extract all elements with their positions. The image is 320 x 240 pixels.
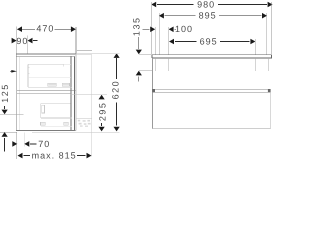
basin front extension line [91,55,93,157]
svg-text:620: 620 [111,80,121,100]
dim 620 line lower segment [116,103,118,126]
dim 620 line upper segment [116,58,118,79]
svg-text:70: 70 [38,139,50,149]
dim 895 extension lines [159,13,267,54]
svg-text:695: 695 [200,36,218,46]
lower drawer internals [41,103,72,118]
svg-text:max. 815: max. 815 [32,151,77,161]
dim 125 up arrow [2,132,8,137]
dim 620 top arrow [114,53,120,58]
dim 295 top extension line [70,94,107,96]
drawer divider lines [17,89,76,91]
dim 695 line [175,41,250,43]
cabinet bottom line [16,129,76,131]
dim 90 right extension line [26,36,28,54]
cabinet left edge [16,54,18,131]
svg-text:135: 135 [132,17,142,37]
dim 295 bottom arrow [99,127,105,132]
upper drawer internals [28,64,72,87]
unit left edge [151,58,153,129]
bracket lines below plate (right) [255,58,268,71]
dim 895 arrows [159,13,164,19]
dim 125 bottom extension line [0,131,16,133]
lower drawer runner box [41,122,69,125]
dim 70 extension lines [16,132,18,159]
dim 70 arrows [12,141,17,147]
svg-text:895: 895 [199,11,217,21]
dim 125 lower tail [4,138,6,152]
cabinet left panel inner line [18,57,20,130]
dim 100/695 extension lines above plate [155,27,255,55]
dim 125 line upper tail [4,106,6,109]
svg-text:125: 125 [0,83,10,103]
siphon area line right of cabinet [76,117,91,119]
unit drawer gap double line [152,89,270,92]
wall-side pointer arrow [10,70,13,72]
bracket lines below plate (left) [155,58,168,71]
dim 980 line [157,4,267,6]
dim 135 line upper tail [138,37,140,49]
dim 620 bottom arrow [114,127,120,132]
dim 90 line tails [33,40,37,42]
dim 980 arrows [151,2,156,8]
dim 90 arrows [12,38,33,44]
basin front profile (light) [76,50,92,54]
dim 135 bottom extension line [139,70,152,72]
dim 620 top extension line [76,53,120,55]
dim 295 line lower segment [101,123,103,126]
countertop plate (side view) [16,54,76,56]
dim 135 lower tail [138,77,140,82]
dim 295 top arrow [99,95,105,100]
cabinet right edge double lines [71,56,75,130]
dim 70 tail line [30,143,36,145]
svg-text:295: 295 [97,102,107,122]
svg-text:100: 100 [175,24,193,34]
dim 135 up arrow [136,71,142,76]
dim 125 down arrow [2,110,8,115]
svg-text:90: 90 [16,36,28,46]
dim 695 arrows [169,39,174,45]
dim max. 815 line segments [23,155,85,157]
console plate (front view) [152,55,272,59]
dim 470 line [17,28,76,30]
unit right edge [269,89,271,129]
dim 470 extension lines [17,26,76,54]
floor shadow line [32,131,120,133]
dim 470 arrows [17,26,76,32]
cabinet back extension (gray) [75,54,77,131]
dim 135 top extension line [139,53,152,55]
unit drawer gap end caps [152,89,155,92]
unit bottom line [152,128,270,130]
siphon stipple area [78,120,91,127]
dim max. 815 arrows [18,153,23,159]
dim 980 extension lines [152,2,272,55]
dim 125 top extension line [0,114,24,116]
svg-text:980: 980 [197,0,215,9]
dim 895 line [165,15,262,17]
dim 100 tails [143,28,177,30]
dim 135 down arrow [136,50,142,55]
svg-text:470: 470 [36,23,54,33]
upper drawer runner boxes [64,63,71,65]
dim 100 arrows [150,27,155,33]
